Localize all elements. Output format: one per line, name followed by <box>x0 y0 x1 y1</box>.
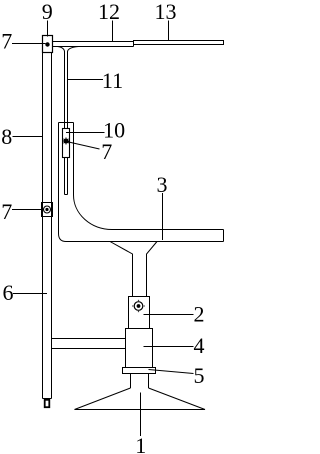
svg-text:6: 6 <box>3 280 14 305</box>
svg-text:11: 11 <box>102 68 123 93</box>
svg-text:7: 7 <box>101 139 112 164</box>
svg-text:12: 12 <box>98 0 120 24</box>
svg-text:7: 7 <box>1 199 12 224</box>
svg-text:13: 13 <box>155 0 177 24</box>
svg-text:7: 7 <box>1 29 12 54</box>
svg-text:8: 8 <box>1 124 12 149</box>
svg-text:2: 2 <box>194 301 205 326</box>
svg-text:5: 5 <box>194 363 205 388</box>
svg-text:9: 9 <box>42 0 53 24</box>
svg-text:4: 4 <box>194 333 205 358</box>
svg-text:3: 3 <box>157 172 168 197</box>
svg-text:1: 1 <box>135 433 146 454</box>
